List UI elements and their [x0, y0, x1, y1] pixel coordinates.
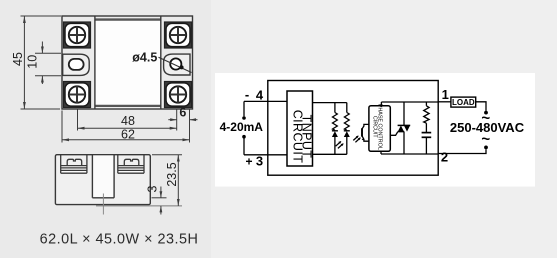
- wire output terminal 1: [438, 101, 451, 103]
- right mounting-hole recess: [164, 54, 190, 75]
- svg-text:+: +: [245, 154, 252, 168]
- svg-text:3: 3: [146, 185, 160, 192]
- dimension 10 (recess pitch): [26, 42, 62, 85]
- node dot lower input: [242, 135, 246, 139]
- triac T1: [398, 102, 411, 154]
- svg-text:6: 6: [179, 106, 186, 120]
- svg-text:62: 62: [121, 127, 135, 141]
- svg-text:ø4.5: ø4.5: [132, 51, 157, 65]
- snubber capacitor C1: [422, 133, 432, 154]
- svg-text:3: 3: [256, 153, 263, 168]
- svg-text:2: 2: [441, 149, 448, 164]
- dimension 62 (width): [62, 109, 190, 143]
- svg-text:-: -: [245, 87, 249, 102]
- dimension 3 (base thickness): [146, 185, 167, 214]
- wire bottom bus (input side): [313, 153, 347, 155]
- left terminal clamp (side view): [61, 155, 87, 174]
- wire top bus (output side): [381, 101, 438, 103]
- svg-text:10: 10: [26, 55, 40, 69]
- dimension 6 (edge offset): [168, 106, 197, 122]
- schematic white panel: [215, 73, 535, 187]
- screw terminal bottom-left: [64, 82, 91, 108]
- phototransistor Q1: [362, 124, 369, 141]
- phase control block U2: [369, 104, 390, 152]
- hole diameter label o4.5: [132, 51, 191, 73]
- screw terminal top-left: [64, 22, 91, 48]
- wire phase box bottom stub: [380, 151, 382, 154]
- dimension 48 (hole spacing): [78, 109, 177, 131]
- wire AC source return: [438, 149, 486, 153]
- load box: [451, 97, 476, 107]
- svg-text:1: 1: [442, 87, 449, 102]
- left LED window recess: [63, 54, 89, 75]
- LED D1 emission arrows: [336, 141, 344, 148]
- wire triac gate: [390, 132, 398, 135]
- page background: [0, 0, 211, 258]
- snubber resistor R3: [424, 102, 429, 133]
- svg-text:LOAD: LOAD: [452, 98, 475, 107]
- SSR front center panel: [95, 16, 161, 109]
- right terminal clamp (side view): [118, 155, 144, 174]
- dimension 23.5 (height): [152, 155, 182, 206]
- overall size caption: [40, 232, 199, 248]
- screw terminal bottom-right: [165, 82, 192, 108]
- svg-text:TNPUTCIRCUIT: TNPUTCIRCUIT: [291, 110, 314, 164]
- resistor R2: [344, 103, 349, 131]
- schematic outer box: [268, 81, 438, 176]
- node dot upper input: [242, 116, 246, 120]
- resistor R1: [333, 103, 338, 131]
- svg-text:48: 48: [121, 114, 135, 128]
- screw terminal top-right: [165, 22, 192, 48]
- input circuit block U1: [287, 91, 314, 166]
- wire input terminal 4: [244, 100, 287, 102]
- node dot AC top: [484, 111, 488, 115]
- LED D2 emission arrows: [353, 136, 361, 143]
- dimension 45 (height): [11, 16, 61, 109]
- svg-text:62.0L × 45.0W × 23.5H: 62.0L × 45.0W × 23.5H: [40, 232, 199, 248]
- mounting hole centerline (side view): [96, 194, 182, 215]
- wire bottom bus (output side): [381, 153, 438, 155]
- LED D1: [332, 131, 338, 155]
- LED D2: [344, 131, 350, 155]
- svg-text:45: 45: [11, 52, 25, 66]
- wire input terminal 3: [244, 154, 287, 156]
- SSR front view body outline: [62, 16, 193, 109]
- SSR side view body outline: [55, 155, 150, 205]
- wire load to AC source: [476, 102, 486, 111]
- svg-text:4-20mA: 4-20mA: [220, 120, 264, 134]
- wire top bus (input side): [313, 102, 347, 104]
- node dot AC bottom: [484, 146, 488, 150]
- wire input left vertical: [243, 101, 245, 154]
- svg-text:23.5: 23.5: [165, 162, 179, 186]
- svg-text:4: 4: [256, 87, 264, 102]
- wire phase box top stub: [380, 102, 382, 106]
